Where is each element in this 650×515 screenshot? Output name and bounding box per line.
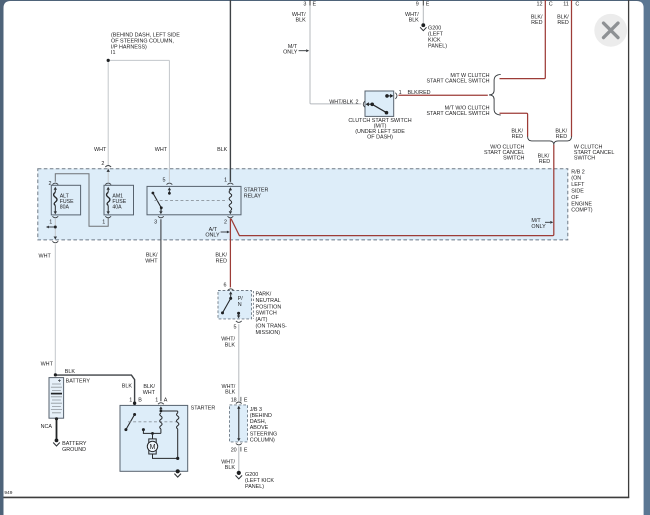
node I1 splice [107,59,110,62]
scrollbar band right [640,0,650,515]
fuse ALT pin hooks [52,183,58,218]
svg-text:N: N [238,302,242,308]
battery [49,378,64,419]
wire WHT/BLK connector 9-E to G200 [422,5,424,23]
relay switch contact [152,192,155,195]
svg-text:RED: RED [556,134,567,140]
svg-text:WHT: WHT [39,253,52,259]
fuse AM1 pin hooks [105,183,111,218]
node coil-motor junction [151,432,154,435]
junction block J/B 3 box [230,405,248,442]
svg-text:BLK: BLK [122,384,133,390]
svg-text:BLK: BLK [65,369,76,375]
svg-text:LEFT: LEFT [571,182,585,188]
svg-text:BLK: BLK [295,18,306,24]
clutch switch pin 2 [363,101,365,107]
svg-text:RED: RED [512,134,523,140]
svg-text:1: 1 [49,220,52,226]
starter mechanical dashed link [128,421,177,423]
tick pin 3-E [309,0,311,6]
relay pin 3 [159,211,162,214]
svg-text:BLK: BLK [409,18,420,24]
svg-text:BLK: BLK [225,465,236,471]
P/N switch pin 5 [237,315,240,318]
starter fixed contact to coil junction [142,428,145,431]
node starter motor junction [176,457,179,460]
svg-text:5: 5 [163,178,166,184]
P/N switch caption [256,291,288,336]
brace split at clutch start switch output [489,74,501,115]
wire WHT splice to AM1 fuse pin 2 [107,60,109,181]
J/B 3 caption [250,407,278,444]
svg-text:B: B [138,397,142,403]
diagram frame bottom line [4,496,630,498]
J/B 3 pin 20 [236,443,242,445]
svg-text:ABOVE: ABOVE [250,425,269,431]
svg-text:SWITCH: SWITCH [256,311,277,317]
svg-text:STEERING: STEERING [250,431,278,437]
svg-text:11: 11 [563,1,569,7]
svg-text:BLK: BLK [225,342,236,348]
svg-text:C: C [549,1,553,7]
svg-text:(ON TRANS-: (ON TRANS- [256,324,288,330]
J/B 3 internal wire [237,406,240,409]
svg-text:STARTER: STARTER [191,405,216,411]
fuse AM1 labels [112,194,126,211]
svg-text:WHT/BLK: WHT/BLK [329,99,353,105]
svg-text:20: 20 [231,448,237,454]
svg-text:COLUMN): COLUMN) [250,437,275,443]
svg-text:A: A [164,397,168,403]
svg-text:PARK/: PARK/ [256,291,272,297]
svg-text:I/P HARNESS): I/P HARNESS) [111,44,147,50]
svg-text:WHT: WHT [94,147,107,153]
wire WHT splice I1 horizontal [108,59,169,61]
switch CLUTCH START SWITCH box [365,91,394,116]
svg-text:1: 1 [129,397,132,403]
svg-text:SWITCH: SWITCH [574,155,595,161]
svg-text:POSITION: POSITION [256,304,282,310]
wire WHT splice to relay pin 5 [168,60,170,181]
svg-text:3: 3 [154,220,157,226]
clutch switch pin 1 [390,94,393,98]
svg-text:BLK: BLK [217,147,228,153]
svg-text:OF DASH): OF DASH) [367,135,393,141]
svg-text:(LEFT: (LEFT [428,31,444,37]
svg-text:I1: I1 [111,50,116,56]
relay coil [229,190,232,210]
motor M [152,433,154,439]
svg-text:9: 9 [416,1,419,7]
svg-text:1: 1 [102,220,105,226]
node battery negative [55,417,58,420]
svg-text:E: E [244,448,248,454]
fuse ALT pin arrows [54,187,57,215]
svg-text:SIDE: SIDE [571,189,584,195]
R/B 2 relay block band [38,169,568,240]
ground G200 bottom [237,471,241,475]
svg-text:2: 2 [356,99,359,105]
svg-text:SWITCH: SWITCH [503,155,524,161]
node ALT pin1 junction with NCA arrow [54,226,57,229]
svg-text:2: 2 [101,161,104,167]
svg-text:1: 1 [399,90,402,96]
ground starter internal [176,469,180,473]
svg-text:RELAY: RELAY [244,194,262,200]
svg-text:WHT: WHT [145,259,158,265]
svg-text:ONLY: ONLY [205,233,220,239]
fuse AM1 pin arrows [107,187,110,215]
svg-text:G200: G200 [245,472,258,478]
wire WHT/BLK from connector 3-E to clutch start switch pin 2 [310,5,361,104]
wire BLK/RED relay pin 2 to park-neutral switch pin 6 (A/T) [229,218,231,287]
svg-text:E: E [426,1,430,7]
close button [594,14,627,47]
node battery positive junction [54,373,57,376]
svg-text:6: 6 [224,282,227,288]
svg-text:WHT: WHT [41,362,54,368]
svg-text:MISSION): MISSION) [256,330,281,336]
wire from ALT fuse pin 2 to AM1 fuse pin 1 [55,174,108,226]
svg-text:BLK/RED: BLK/RED [408,90,431,96]
svg-text:12: 12 [537,1,543,7]
svg-text:START CANCEL SWITCH: START CANCEL SWITCH [427,78,490,84]
svg-text:BLK: BLK [225,390,236,396]
starter switch contact [133,413,136,416]
svg-text:RED: RED [531,20,542,26]
svg-text:ONLY: ONLY [283,50,298,56]
starter pull-in coil [160,413,162,434]
wire BLK/RED relay pin 2 diagonal to right side (M/T) [231,145,554,236]
relay mechanical dashed link [155,200,228,202]
svg-text:18: 18 [231,398,237,404]
svg-text:J/B 3: J/B 3 [250,407,262,413]
diagram frame vertical line [628,0,630,498]
P/N switch contacts [229,297,232,300]
svg-text:GROUND: GROUND [62,447,86,453]
svg-text:1: 1 [155,397,158,403]
svg-text:RED: RED [539,159,550,165]
svg-text:949: 949 [4,490,12,496]
svg-text:P/: P/ [238,296,244,302]
svg-text:STARTER: STARTER [244,187,269,193]
fuse AM1 40A box [104,185,134,215]
tick pin 9-E [422,0,424,6]
wire WHT ALT fuse pin 1 to battery [54,219,56,375]
svg-text:1: 1 [224,178,227,184]
svg-text:2: 2 [224,219,227,225]
svg-text:R/B 2: R/B 2 [571,169,584,175]
svg-text:PANEL): PANEL) [245,484,264,490]
clutch switch contacts [370,103,374,107]
wire BLK/RED lower branch [500,113,528,136]
wire BLK battery positive to starter pin B [55,375,134,414]
svg-text:NEUTRAL: NEUTRAL [256,298,281,304]
svg-text:5: 5 [234,325,237,331]
ground G200 top [421,23,425,27]
svg-text:DASH,: DASH, [250,419,267,425]
wire BLK/RED upper branch to connector 12-C [500,0,546,79]
svg-text:KICK: KICK [428,38,441,44]
fuse ALT labels [60,194,74,211]
relay pin 2 [229,211,232,214]
svg-text:ONLY: ONLY [531,224,546,230]
switch PARK/NEUTRAL POSITION SWITCH box [218,291,252,319]
relay STARTER RELAY box [147,186,241,214]
connector battery wire through R/B bottom [54,237,57,240]
svg-text:PANEL): PANEL) [428,44,447,50]
svg-text:WHT: WHT [155,147,168,153]
svg-text:(ON: (ON [571,176,581,182]
svg-text:C: C [575,1,579,7]
wire BLK/RED clutch start switch pin 1 output [399,94,488,96]
starter STARTER box [120,405,188,471]
P/N label separator [252,291,254,319]
svg-text:ENGINE: ENGINE [571,201,592,207]
svg-text:3: 3 [303,1,306,7]
svg-text:80A: 80A [60,205,70,211]
wire WHT/BLK J/B 3 pin 20 to G200 [238,446,240,471]
svg-text:E: E [244,398,248,404]
svg-text:WHT: WHT [143,390,156,396]
svg-text:M: M [150,444,156,451]
wire NCA battery negative to ground [56,419,58,440]
svg-text:(BEHIND: (BEHIND [250,413,272,419]
svg-text:OF: OF [571,195,579,201]
wire WHT/BLK park-neutral switch pin 5 to J/B 3 pin 18 [238,324,240,401]
svg-text:COMPT): COMPT) [571,208,592,214]
brace merge of cancel switch wires [528,136,572,144]
svg-text:NCA: NCA [41,424,53,430]
svg-text:RED: RED [557,20,568,26]
ground battery [55,439,59,443]
wire BLK from top to relay pin 1 [229,0,231,182]
fuse ALT 80A box [51,185,80,215]
svg-text:40A: 40A [112,205,122,211]
svg-text:(A/T): (A/T) [256,317,268,323]
wire BLK/WHT relay pin 3 to starter pin A [160,219,162,401]
fuse AM1 element [107,190,110,212]
svg-text:G200: G200 [428,25,441,31]
svg-text:BATTERY: BATTERY [66,378,91,384]
svg-text:START CANCEL SWITCH: START CANCEL SWITCH [427,111,490,117]
svg-text:2: 2 [49,181,52,187]
fuse ALT element [54,190,57,212]
svg-text:RED: RED [216,259,227,265]
R/B 2 label [571,169,592,213]
starter hold-in coil [161,411,179,458]
svg-text:E: E [313,1,317,7]
wire BLK/RED right vertical from connector 11-C [571,0,573,137]
